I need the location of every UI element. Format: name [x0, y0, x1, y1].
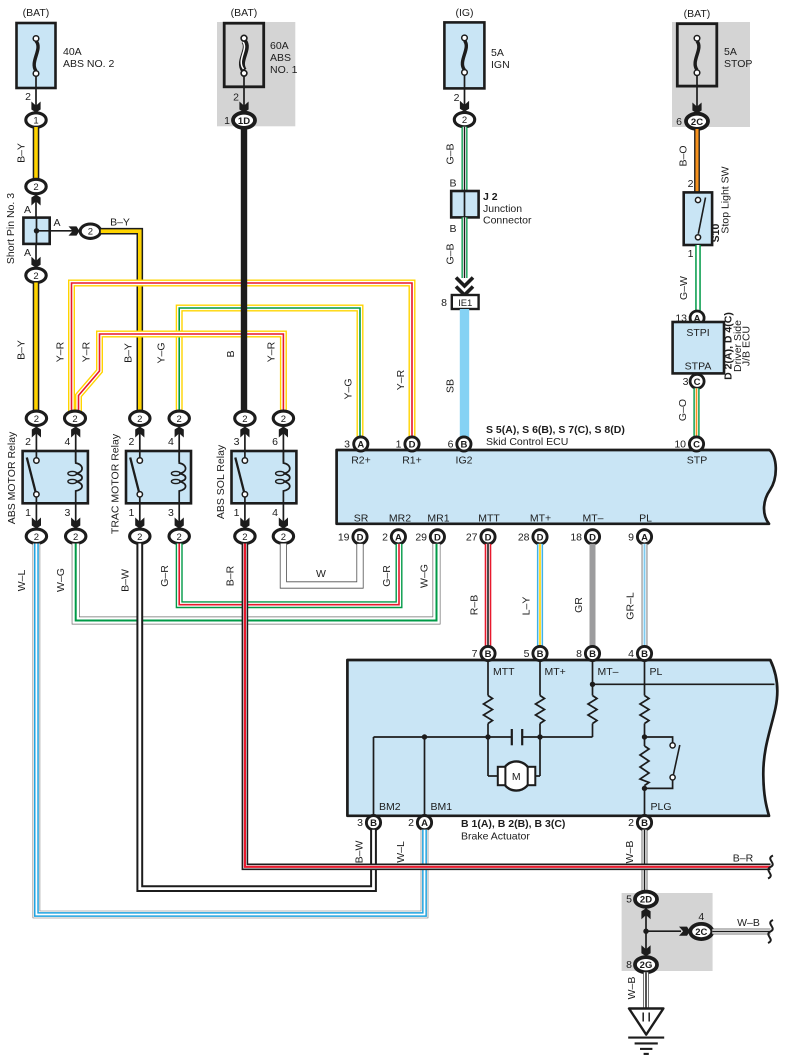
connector oval 2 (right of short pin)	[80, 224, 100, 238]
svg-text:8: 8	[441, 297, 447, 309]
svg-text:2: 2	[88, 227, 93, 238]
actuator internal MT+ lead	[539, 661, 541, 696]
pin circle 13 A	[675, 311, 704, 325]
ABS SOL relay coil	[283, 451, 289, 503]
wire fuse F2 to connector 1D	[243, 76, 245, 114]
connector IE1	[441, 295, 478, 309]
connector oval 2C (top)	[676, 114, 708, 129]
connector oval 2 (IGN)	[454, 112, 474, 126]
svg-text:2C: 2C	[695, 927, 707, 938]
ABS SOL relay pin 4 stub	[272, 503, 293, 543]
wire GR ECU MT- to actuator MT-	[573, 544, 593, 648]
svg-text:G–R: G–R	[159, 565, 171, 587]
gray panel behind fuse STOP	[672, 22, 750, 127]
svg-text:D: D	[409, 440, 416, 451]
svg-text:2: 2	[242, 414, 247, 425]
svg-text:C: C	[694, 377, 701, 388]
svg-text:2: 2	[382, 531, 388, 543]
svg-text:29: 29	[415, 531, 427, 543]
wire 2D to junction	[645, 907, 647, 931]
svg-text:C: C	[693, 440, 700, 451]
svg-text:6: 6	[676, 116, 682, 128]
svg-text:G–O: G–O	[677, 399, 689, 421]
fuse F2 60A ABS NO.1	[224, 7, 297, 87]
svg-text:Y–G: Y–G	[343, 378, 355, 399]
svg-text:4: 4	[168, 436, 174, 448]
svg-text:MT–: MT–	[583, 513, 604, 525]
svg-text:2: 2	[137, 532, 142, 543]
fuse F1 40A ABS NO.2	[17, 7, 115, 88]
wire G-B IGN lower	[445, 217, 465, 278]
wire W-B to ground	[626, 972, 646, 1008]
svg-text:Stop Light SW: Stop Light SW	[720, 166, 732, 233]
svg-text:5A: 5A	[491, 47, 504, 59]
ABS MOTOR relay pin 1 stub	[25, 497, 46, 544]
svg-text:(BAT): (BAT)	[23, 7, 50, 19]
svg-text:D: D	[357, 532, 364, 543]
Skid Control ECU box	[337, 424, 776, 525]
actuator pin 7 B (MTT)	[472, 646, 495, 660]
svg-text:W–G: W–G	[55, 568, 67, 592]
svg-text:B: B	[449, 178, 456, 190]
wire B-W TRAC pin1 to actuator BM2	[120, 544, 374, 889]
actuator internal MTT lead	[487, 661, 489, 696]
break symbol W-B right end	[768, 920, 773, 943]
TRAC relay pin 1 stub	[129, 497, 150, 544]
svg-text:A: A	[53, 217, 60, 229]
svg-text:18: 18	[570, 531, 582, 543]
connector oval 1	[26, 113, 46, 127]
connector oval 1D	[224, 113, 255, 128]
svg-text:IGN: IGN	[491, 59, 510, 71]
svg-text:W–L: W–L	[16, 570, 28, 592]
svg-text:L–Y: L–Y	[521, 597, 533, 616]
svg-text:2: 2	[177, 414, 182, 425]
svg-text:ABS NO. 2: ABS NO. 2	[63, 58, 115, 70]
svg-text:2: 2	[25, 91, 31, 103]
svg-text:D: D	[537, 532, 544, 543]
svg-text:MT+: MT+	[545, 666, 566, 678]
resistor R-MT+	[536, 696, 545, 724]
svg-text:G–B: G–B	[445, 243, 457, 264]
svg-text:2: 2	[73, 532, 78, 543]
svg-text:Y–R: Y–R	[395, 369, 407, 390]
motor M	[498, 761, 536, 790]
svg-text:MT–: MT–	[598, 666, 619, 678]
actuator pin 5 B (MT+)	[524, 646, 547, 660]
svg-text:2: 2	[34, 532, 39, 543]
junction dot inside short pin	[34, 228, 39, 233]
svg-text:R–B: R–B	[469, 595, 481, 615]
svg-text:G–W: G–W	[678, 276, 690, 300]
ECU pin 28 D (MT+)	[518, 530, 547, 544]
Brake Actuator box	[347, 660, 777, 816]
svg-text:6: 6	[272, 436, 278, 448]
svg-text:MR2: MR2	[389, 513, 411, 525]
svg-text:Junction: Junction	[483, 203, 522, 215]
ABS SOL relay switch	[235, 458, 247, 497]
svg-text:1: 1	[688, 248, 694, 260]
relay ABS MOTOR Relay	[6, 431, 88, 524]
ECU pin 29 D (MR1)	[415, 530, 444, 544]
svg-text:4: 4	[64, 436, 70, 448]
actuator main bus with capacitor	[374, 736, 512, 738]
svg-text:1: 1	[33, 116, 38, 127]
wire junction to connector 2C	[646, 930, 681, 932]
wire B-Y fuse1 to connector 2	[16, 127, 37, 180]
gray panel bottom-right connectors	[622, 893, 713, 971]
wire fuse F4 to connector 2C	[696, 76, 698, 116]
ABS MOTOR relay pin 4 stub	[64, 411, 85, 462]
svg-text:2: 2	[688, 178, 694, 190]
svg-text:W–G: W–G	[419, 564, 431, 588]
wire W ABS SOL pin4 to ECU SR	[283, 544, 360, 586]
ECU pin 27 D (MTT)	[466, 530, 495, 544]
svg-text:B–W: B–W	[354, 841, 366, 864]
svg-text:4: 4	[272, 507, 278, 519]
svg-text:2: 2	[281, 414, 286, 425]
svg-text:STP: STP	[687, 455, 707, 467]
svg-text:IE1: IE1	[458, 298, 472, 309]
svg-text:B: B	[460, 440, 467, 451]
svg-text:PL: PL	[650, 666, 663, 678]
svg-text:J 2: J 2	[483, 191, 498, 203]
relay ABS SOL Relay	[215, 444, 296, 519]
svg-text:STPA: STPA	[685, 361, 712, 373]
svg-text:2: 2	[34, 414, 39, 425]
svg-text:5: 5	[524, 648, 530, 660]
wire fuse F1 to connector 1	[35, 76, 37, 114]
svg-text:B–Y: B–Y	[16, 340, 28, 360]
svg-text:TRAC MOTOR Relay: TRAC MOTOR Relay	[110, 433, 122, 534]
svg-text:W–B: W–B	[626, 977, 638, 1000]
svg-text:MTT: MTT	[478, 513, 500, 525]
svg-text:MTT: MTT	[493, 666, 515, 678]
svg-text:2: 2	[25, 436, 31, 448]
svg-text:B–Y: B–Y	[110, 217, 130, 229]
resistor R-PL1	[640, 696, 649, 724]
break symbol B-R right end	[768, 856, 773, 879]
svg-text:2: 2	[33, 271, 38, 282]
svg-text:5A: 5A	[724, 46, 737, 58]
svg-text:B–W: B–W	[120, 569, 132, 592]
double chevron arrow into IE1	[456, 278, 473, 296]
svg-text:2: 2	[454, 92, 460, 104]
actuator pin 8 B (MT-)	[576, 646, 599, 660]
svg-text:ABS SOL Relay: ABS SOL Relay	[215, 444, 227, 519]
svg-text:STPI: STPI	[686, 327, 709, 339]
svg-text:B: B	[370, 818, 377, 829]
svg-text:1: 1	[234, 507, 240, 519]
switch S10 Stop Light SW	[684, 166, 732, 245]
svg-text:GR: GR	[573, 597, 585, 613]
pin circle 3 C	[683, 374, 704, 388]
svg-text:Y–R: Y–R	[266, 341, 278, 362]
svg-text:40A: 40A	[63, 46, 82, 58]
junction dot bottom right	[643, 929, 648, 934]
svg-text:W–B: W–B	[737, 917, 760, 929]
wire B-R ABS SOL pin1 to right edge	[225, 544, 771, 867]
svg-text:6: 6	[448, 439, 454, 451]
TRAC relay pin 3 stub	[168, 503, 189, 543]
svg-text:4: 4	[698, 911, 704, 923]
svg-text:A: A	[641, 532, 648, 543]
svg-text:B–O: B–O	[678, 145, 690, 166]
svg-text:(IG): (IG)	[455, 7, 473, 19]
ECU pin 1 D (R1+)	[396, 437, 419, 451]
svg-text:SB: SB	[445, 379, 457, 393]
svg-text:G–R: G–R	[381, 565, 393, 587]
svg-text:(BAT): (BAT)	[231, 7, 258, 19]
connector oval 5 2D	[626, 892, 657, 907]
svg-text:ABS MOTOR Relay: ABS MOTOR Relay	[6, 431, 18, 524]
actuator pin 4 B (PL)	[628, 646, 651, 660]
svg-text:B–R: B–R	[225, 565, 237, 586]
wire R-B ECU MTT to actuator MTT	[469, 544, 489, 648]
node dots on bus	[422, 734, 427, 739]
svg-text:1: 1	[396, 439, 402, 451]
TRAC relay switch	[130, 458, 142, 497]
wire G-O to ECU STP	[677, 388, 697, 437]
svg-text:1: 1	[224, 115, 230, 127]
wire B-Y to ABS MOTOR relay pin 2	[16, 283, 37, 412]
arrow into connector 1	[31, 102, 40, 113]
svg-text:2: 2	[129, 436, 135, 448]
ground symbol	[628, 1038, 664, 1054]
wire G-B IGN upper	[445, 127, 465, 191]
svg-text:Y–G: Y–G	[156, 342, 168, 363]
svg-text:BM1: BM1	[431, 801, 453, 813]
TRAC relay coil	[179, 451, 185, 503]
svg-text:Y–R: Y–R	[81, 341, 93, 362]
svg-text:IG2: IG2	[456, 455, 473, 467]
svg-text:28: 28	[518, 531, 530, 543]
svg-text:J/B ECU: J/B ECU	[741, 326, 753, 366]
svg-text:STOP: STOP	[724, 58, 752, 70]
svg-text:S 5(A), S 6(B), S 7(C), S 8(D): S 5(A), S 6(B), S 7(C), S 8(D)	[486, 424, 625, 436]
wire B fuse ABS NO.1 to ABS SOL relay pin3	[225, 128, 244, 411]
motor M leads	[488, 775, 502, 777]
svg-text:B: B	[225, 350, 237, 357]
svg-text:8: 8	[576, 648, 582, 660]
ECU pin 6 B (IG2)	[448, 437, 471, 451]
svg-text:B: B	[641, 649, 648, 660]
svg-text:B–Y: B–Y	[123, 343, 135, 363]
wire short pin to connector 2 with arrow up	[35, 194, 37, 218]
svg-text:D: D	[485, 532, 492, 543]
svg-text:9: 9	[628, 531, 634, 543]
svg-text:D: D	[589, 532, 596, 543]
wire B-Y to TRAC relay pin 2	[101, 217, 140, 412]
svg-text:NO. 1: NO. 1	[270, 64, 298, 76]
svg-text:2: 2	[242, 532, 247, 543]
wire W-G ABS MOTOR pin3 to ECU MR1	[55, 544, 437, 621]
connector oval 4 2C	[690, 911, 712, 939]
svg-text:3: 3	[683, 376, 689, 388]
svg-text:2: 2	[408, 817, 414, 829]
svg-text:1D: 1D	[238, 116, 250, 127]
ECU pin 2 A (MR2)	[382, 530, 405, 544]
ECU pin 18 D (MT-)	[570, 530, 599, 544]
svg-text:2: 2	[33, 182, 38, 193]
svg-text:3: 3	[168, 507, 174, 519]
svg-text:R2+: R2+	[351, 455, 371, 467]
ECU pin 10 C (STP)	[674, 437, 703, 451]
svg-text:G–B: G–B	[445, 143, 457, 164]
svg-text:8: 8	[626, 959, 632, 971]
svg-text:3: 3	[344, 439, 350, 451]
svg-text:2D: 2D	[640, 895, 652, 906]
svg-text:BM2: BM2	[379, 801, 401, 813]
svg-text:ABS: ABS	[270, 52, 291, 64]
actuator pin 2 A (BM1)	[408, 816, 431, 830]
svg-text:60A: 60A	[270, 40, 289, 52]
wire Y-R ABS SOL relay pin6 to ABS MOTOR relay pin4	[79, 334, 284, 412]
wire B-O to stop light switch	[678, 129, 698, 192]
capacitor C1 plates	[511, 729, 513, 745]
svg-text:W–B: W–B	[624, 841, 636, 864]
pressure switch branch	[645, 737, 680, 788]
wire junction to connector 2G	[645, 931, 647, 957]
svg-text:MT+: MT+	[530, 513, 551, 525]
svg-text:Brake Actuator: Brake Actuator	[461, 831, 530, 843]
svg-text:B: B	[537, 649, 544, 660]
ABS MOTOR relay pin 3 stub	[64, 503, 85, 543]
ABS SOL relay pin 6 stub	[272, 411, 293, 462]
ABS SOL relay pin 3 stub	[234, 411, 255, 458]
relay TRAC MOTOR Relay	[110, 433, 192, 534]
svg-text:19: 19	[338, 531, 350, 543]
arrow into right connector 2	[69, 226, 80, 235]
actuator pin 3 B (BM2)	[357, 816, 380, 830]
wire GR-L ECU PL to actuator PL	[625, 544, 645, 648]
Brake Actuator caption	[461, 818, 565, 843]
ground triangle II	[629, 1009, 663, 1035]
TRAC relay pin 4 stub	[168, 411, 189, 462]
svg-text:4: 4	[628, 648, 634, 660]
svg-text:B: B	[589, 649, 596, 660]
wire Y-G TRAC relay pin4 to ECU R2+	[156, 308, 361, 437]
svg-text:GR–L: GR–L	[625, 592, 637, 620]
connector oval 2 (below short pin)	[26, 268, 46, 282]
wire L-Y ECU MT+ to actuator MT+	[521, 544, 541, 648]
fuse F4 5A STOP	[677, 8, 752, 86]
ABS MOTOR relay pin 2 stub	[25, 411, 46, 458]
svg-text:B: B	[485, 649, 492, 660]
svg-text:PL: PL	[639, 513, 652, 525]
svg-text:7: 7	[472, 648, 478, 660]
svg-text:1: 1	[25, 507, 31, 519]
junction connector J2	[451, 191, 532, 227]
wire SB to ECU IG2	[445, 309, 465, 437]
svg-text:2: 2	[177, 532, 182, 543]
svg-text:MR1: MR1	[427, 513, 449, 525]
wire W-B from 2C to right edge	[712, 917, 770, 932]
actuator internal MT- lead and bus to torn edge	[592, 661, 594, 696]
connector oval 2 (above short pin)	[26, 179, 46, 193]
wire G-W to driver side J/B	[678, 245, 698, 312]
wire Y-R ECU R1+ to ABS MOTOR relay pin4	[55, 283, 413, 437]
svg-text:1: 1	[129, 507, 135, 519]
svg-text:B–Y: B–Y	[16, 143, 28, 163]
connector oval 8 2G	[626, 957, 657, 972]
svg-text:B: B	[449, 223, 456, 235]
svg-text:2C: 2C	[691, 117, 703, 128]
svg-text:PLG: PLG	[651, 801, 672, 813]
svg-text:27: 27	[466, 531, 478, 543]
wire W-B actuator PLG to connector 2D	[624, 830, 645, 892]
svg-text:2: 2	[628, 817, 634, 829]
svg-text:2: 2	[72, 414, 77, 425]
wire G-R TRAC pin3 to ECU MR2	[159, 544, 399, 605]
svg-text:D: D	[434, 532, 441, 543]
svg-text:B–R: B–R	[733, 853, 754, 865]
driver side J/B ECU box STPI/STPA	[673, 312, 753, 380]
svg-text:2: 2	[281, 532, 286, 543]
svg-text:A: A	[395, 532, 402, 543]
Short Pin No. 3	[5, 193, 50, 264]
gray panel behind fuse ABS NO.1	[217, 22, 295, 126]
svg-text:B: B	[641, 818, 648, 829]
svg-text:R1+: R1+	[402, 455, 422, 467]
svg-text:Connector: Connector	[483, 215, 532, 227]
ECU pin 9 A (PL)	[628, 530, 651, 544]
svg-text:W: W	[316, 568, 326, 580]
ECU pin 19 D (SR)	[338, 530, 367, 544]
svg-text:A: A	[421, 818, 428, 829]
svg-text:M: M	[512, 771, 521, 783]
actuator internal PL lead	[644, 661, 646, 696]
ABS SOL relay pin 1 stub	[234, 497, 255, 544]
wire BM1 lead	[424, 737, 426, 816]
svg-text:A: A	[24, 247, 31, 259]
svg-text:(BAT): (BAT)	[684, 8, 711, 20]
svg-text:3: 3	[357, 817, 363, 829]
svg-text:Short Pin No. 3: Short Pin No. 3	[5, 193, 17, 264]
wire BM2 lead	[373, 737, 375, 816]
svg-text:Skid Control ECU: Skid Control ECU	[486, 436, 568, 448]
ABS MOTOR relay coil	[76, 451, 82, 503]
resistor R-MTT	[484, 696, 493, 724]
svg-text:SR: SR	[354, 513, 369, 525]
svg-text:A: A	[24, 204, 31, 216]
resistor R-PL2	[640, 746, 649, 786]
svg-text:10: 10	[674, 439, 686, 451]
svg-text:2G: 2G	[640, 960, 653, 971]
svg-text:2: 2	[137, 414, 142, 425]
svg-text:5: 5	[626, 894, 632, 906]
svg-text:3: 3	[64, 507, 70, 519]
wire short pin right branch	[37, 230, 80, 232]
TRAC relay pin 2 stub	[129, 411, 150, 458]
wire W-L ABS MOTOR pin1 to actuator BM1	[16, 544, 425, 915]
svg-text:2: 2	[233, 92, 239, 104]
fuse F3 5A IGN	[444, 7, 509, 88]
svg-text:2: 2	[462, 115, 467, 126]
svg-text:B 1(A), B 2(B), B 3(C): B 1(A), B 2(B), B 3(C)	[461, 818, 565, 830]
wire fuse F3 to connector 2	[464, 75, 466, 113]
wire short pin down to connector 2	[35, 244, 37, 269]
actuator pin 2 B (PLG)	[628, 816, 651, 830]
svg-text:Y–R: Y–R	[55, 341, 67, 362]
ABS MOTOR relay switch	[27, 458, 39, 497]
svg-text:3: 3	[234, 436, 240, 448]
svg-text:A: A	[357, 440, 364, 451]
resistor R-MT-	[588, 696, 597, 724]
ECU pin 3 A (R2+)	[344, 437, 368, 451]
svg-text:W–L: W–L	[395, 841, 407, 863]
